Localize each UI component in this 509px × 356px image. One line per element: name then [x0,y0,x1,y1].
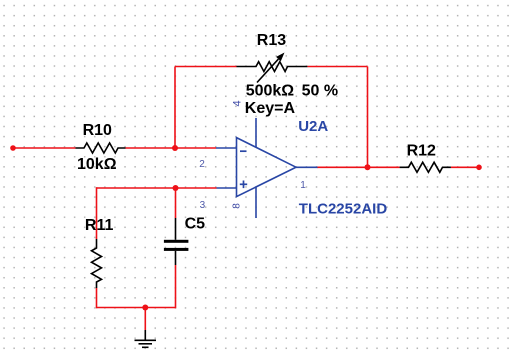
label U2A [298,118,328,135]
wire input left [10,145,75,151]
pin 4 [232,100,244,106]
pin 1 [300,180,306,191]
label R12 [407,143,436,160]
wire R11 branch lower [96,288,98,308]
value 500kΩ [246,82,295,99]
svg-text:500kΩ: 500kΩ [246,82,295,99]
wire feedback top rail left [175,66,237,68]
node feedback-left junction [172,145,178,151]
pin 8 [232,203,243,209]
wire noninverting rail [97,187,217,189]
node C5 tap junction [173,185,179,191]
svg-text:C5: C5 [185,216,206,233]
svg-text:1: 1 [300,180,306,191]
svg-text:U2A: U2A [298,118,328,135]
svg-text:R10: R10 [83,122,112,139]
svg-text:8: 8 [232,203,243,209]
resistor R11 [92,239,102,288]
wire R12 to output terminal [451,165,482,171]
ground [135,330,157,347]
pin 2 [199,159,205,170]
svg-text:2: 2 [199,159,205,170]
node output junction [365,164,371,170]
wire C5 branch upper [175,188,177,218]
wire feedback top rail right [307,66,367,68]
potentiometer R13 [237,53,308,83]
svg-text:R13: R13 [257,32,286,49]
svg-text:50 %: 50 % [302,82,338,99]
wire R11 branch upper [96,187,98,239]
svg-text:Key=A: Key=A [245,100,296,117]
svg-text:10kΩ: 10kΩ [77,156,117,173]
value Key=A [245,100,296,117]
wire feedback left vertical [174,67,176,149]
capacitor C5 [164,218,189,265]
label TLC2252AID [299,201,388,218]
wire bottom rail [97,307,176,309]
svg-text:TLC2252AID: TLC2252AID [299,201,388,218]
wire output [317,166,400,168]
resistor R12 [400,162,451,172]
resistor R10 [76,143,126,153]
wire ground stub [144,308,146,331]
wire R10 to junction [126,147,217,149]
label R11 [85,217,114,234]
node ground junction [142,305,148,311]
value 50 % [302,82,338,99]
wire feedback right vertical [367,67,369,168]
svg-text:3: 3 [200,200,206,211]
op-amp U2A [216,118,318,218]
value 10kΩ [77,156,117,173]
wire C5 branch lower [175,265,177,308]
pin 3 [200,200,206,211]
svg-text:4: 4 [232,100,244,106]
svg-text:R12: R12 [407,143,436,160]
label C5 [185,216,206,233]
label R10 [83,122,112,139]
label R13 [257,32,286,49]
svg-text:R11: R11 [85,217,114,234]
